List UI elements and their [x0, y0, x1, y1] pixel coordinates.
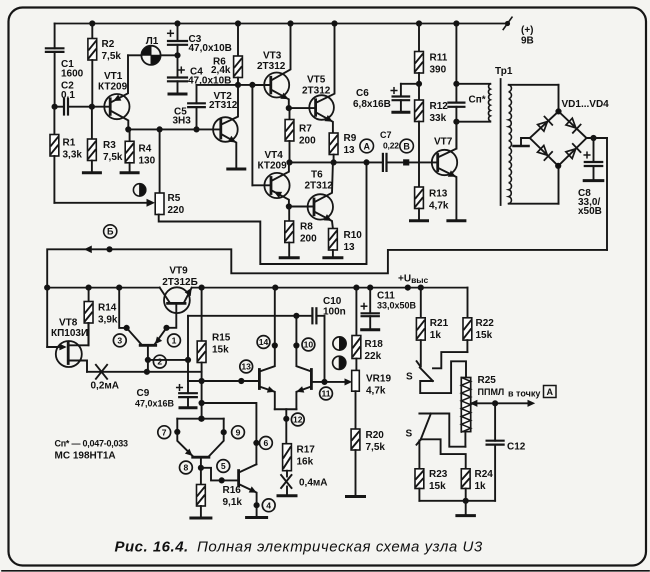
svg-text:13: 13 [241, 362, 251, 372]
svg-text:КП103И: КП103И [51, 328, 88, 339]
wire pin13 base [188, 380, 259, 382]
svg-text:в точку: в точку [508, 389, 540, 399]
svg-text:VD1...VD4: VD1...VD4 [562, 99, 610, 110]
svg-text:7: 7 [162, 427, 167, 437]
svg-text:R9: R9 [344, 133, 357, 144]
svg-text:47,0x16В: 47,0x16В [135, 399, 175, 409]
svg-text:1k: 1k [475, 481, 487, 492]
ground VT2 [228, 168, 245, 171]
svg-text:2,4k: 2,4k [211, 65, 231, 76]
pin 13 [240, 360, 253, 373]
svg-text:R12: R12 [430, 101, 449, 112]
ground R4 [121, 171, 138, 174]
transistor pair C (pins 7-9-8) [177, 418, 223, 420]
svg-text:КТ209: КТ209 [98, 82, 128, 93]
transformer Tp1 primary [456, 83, 490, 85]
wire C10 node [188, 315, 312, 317]
svg-text:6,8x16В: 6,8x16В [353, 99, 391, 110]
svg-text:C7: C7 [380, 130, 392, 140]
svg-text:R25: R25 [478, 375, 497, 386]
diode VD1 [538, 122, 548, 132]
svg-text:R23: R23 [429, 469, 448, 480]
svg-text:4,7k: 4,7k [366, 386, 386, 397]
svg-text:Б: Б [107, 227, 114, 237]
lamp L1 [128, 54, 141, 56]
svg-text:2Т312: 2Т312 [305, 181, 334, 192]
svg-text:R1: R1 [63, 138, 76, 149]
pin 3 [113, 334, 126, 347]
pin 5 [217, 460, 230, 473]
svg-text:S: S [406, 429, 413, 440]
svg-text:12: 12 [293, 415, 303, 425]
svg-text:ППМЛ: ППМЛ [478, 387, 505, 397]
svg-text:33k: 33k [430, 113, 447, 124]
wire VT1 collector node [126, 127, 131, 132]
node B2 arrow [85, 246, 91, 252]
capacitor C8 [591, 135, 596, 140]
capacitor C12 [494, 403, 496, 440]
svg-text:Л1: Л1 [146, 36, 159, 47]
svg-text:2Т312: 2Т312 [209, 100, 238, 111]
ground VT7 [448, 219, 465, 222]
svg-text:Т6: Т6 [311, 170, 323, 181]
wire pin2 link [148, 359, 188, 361]
resistor R17 [283, 444, 292, 471]
diode VD3 [538, 146, 548, 156]
resistor R3 [91, 107, 93, 139]
pin 10 [302, 338, 315, 351]
wire pin5 link [201, 468, 239, 481]
svg-text:100n: 100n [323, 307, 346, 318]
resistor R2 [90, 21, 95, 26]
ground Q4 [247, 516, 267, 519]
resistor R20 [355, 391, 357, 429]
wire to R5 arrow [54, 202, 147, 204]
svg-text:МС 198НТ1А: МС 198НТ1А [55, 451, 116, 462]
svg-text:3Н3: 3Н3 [173, 116, 192, 127]
transistor pair B left (pin 13-14) [258, 370, 261, 389]
wire supply snake [47, 249, 607, 287]
resistor R9 [329, 133, 338, 155]
capacitor C11 [369, 288, 371, 314]
svg-text:Тр1: Тр1 [495, 66, 513, 77]
svg-text:4: 4 [266, 500, 271, 510]
svg-text:15k: 15k [476, 330, 493, 341]
svg-text:VT8: VT8 [59, 318, 78, 329]
node Б [104, 225, 117, 238]
svg-text:C6: C6 [356, 88, 369, 99]
pin 7 [158, 426, 171, 439]
svg-text:200: 200 [299, 136, 316, 147]
svg-text:130: 130 [139, 156, 156, 167]
svg-text:13: 13 [344, 242, 356, 253]
svg-text:0,22: 0,22 [383, 141, 399, 151]
svg-text:R22: R22 [476, 318, 495, 329]
svg-text:Сп* — 0,047-0,033: Сп* — 0,047-0,033 [55, 439, 128, 449]
resistor R14 [88, 288, 90, 302]
svg-text:390: 390 [430, 65, 447, 76]
svg-text:x50В: x50В [578, 206, 602, 217]
svg-text:8: 8 [184, 463, 189, 473]
svg-text:+Uвыс: +Uвыс [398, 274, 429, 286]
svg-text:R13: R13 [429, 189, 448, 200]
svg-text:R3: R3 [103, 140, 116, 151]
svg-text:7,5k: 7,5k [366, 442, 386, 453]
capacitor C4 [177, 55, 179, 77]
svg-text:47,0x10В: 47,0x10В [189, 43, 232, 54]
transistor pair A (pins 3-1-2) [140, 344, 156, 347]
svg-text:Сп*: Сп* [469, 95, 486, 106]
wire base VT3 node [197, 84, 271, 86]
transistor VT7 [432, 150, 457, 175]
svg-text:33,0x50В: 33,0x50В [377, 301, 417, 311]
resistor R4 [129, 129, 131, 141]
wire bridge output [587, 137, 608, 139]
svg-text:3,3k: 3,3k [63, 150, 83, 161]
pin 14 [257, 336, 270, 349]
transistor VT2 2T312 [213, 117, 238, 142]
bottom page rule [2, 570, 649, 572]
svg-text:2Т312: 2Т312 [302, 86, 331, 97]
potentiometer R25 [461, 378, 470, 432]
ground R8 [280, 256, 298, 259]
resistor R11 [416, 21, 421, 26]
svg-text:5: 5 [221, 461, 226, 471]
capacitor C6 [401, 83, 419, 85]
svg-text:A: A [546, 387, 553, 397]
svg-text:15k: 15k [429, 481, 446, 492]
transistor VT5 2T312 [289, 107, 316, 109]
ground bus [457, 514, 475, 517]
ground R10 [324, 256, 342, 259]
capacitor C5 [196, 85, 198, 103]
svg-text:R14: R14 [98, 303, 117, 314]
resistor R12 [418, 84, 420, 100]
transistor VT8 KP103I [46, 288, 48, 347]
svg-text:200: 200 [300, 234, 317, 245]
svg-text:R20: R20 [366, 430, 385, 441]
wire pin11 to VR19 [311, 381, 347, 383]
svg-text:6: 6 [264, 438, 269, 448]
transistor VT9 2T312B [164, 287, 190, 313]
svg-text:VT7: VT7 [434, 137, 453, 148]
wire X 0.2mA [87, 371, 202, 373]
svg-text:КТ209: КТ209 [258, 161, 288, 172]
resistor R21 [420, 288, 422, 318]
wire VT3VT4 base link [251, 85, 253, 185]
svg-text:2: 2 [157, 357, 162, 367]
svg-text:R18: R18 [365, 339, 384, 350]
svg-text:11: 11 [321, 389, 330, 399]
pin 6 [260, 437, 273, 450]
pin 12 [291, 413, 304, 426]
ground C4 [169, 93, 186, 96]
transformer Tp1 secondary [509, 84, 559, 86]
svg-text:R5: R5 [168, 193, 181, 204]
transistor VT4 KT209 [264, 173, 289, 198]
wire top supply rail [55, 23, 508, 25]
svg-text:15k: 15k [212, 345, 229, 356]
svg-text:9,1k: 9,1k [223, 497, 243, 508]
transistor T6 2T312 [289, 206, 314, 208]
wire tank feed [454, 21, 459, 26]
svg-text:4,7k: 4,7k [429, 201, 449, 212]
node B [400, 139, 414, 153]
pin 9 [232, 426, 245, 439]
svg-text:Рис. 16.4.: Рис. 16.4. [115, 539, 189, 556]
svg-text:9: 9 [236, 427, 241, 437]
svg-text:VT3: VT3 [263, 51, 282, 62]
svg-text:0,2мА: 0,2мА [91, 381, 120, 392]
transformer core [500, 79, 502, 205]
svg-text:220: 220 [168, 205, 185, 216]
svg-text:14: 14 [259, 337, 269, 347]
transistor Q4 (pins 5-6-4) [237, 471, 240, 486]
resistor R23 [415, 469, 424, 489]
resistor R24 [461, 469, 470, 489]
trimmer marker [133, 184, 145, 196]
capacitor C1 [54, 24, 56, 49]
svg-text:Полная электрическая схема узл: Полная электрическая схема узла U3 [197, 539, 483, 556]
svg-text:R17: R17 [297, 445, 316, 456]
svg-text:R24: R24 [475, 469, 494, 480]
wire VT1 base node [55, 106, 64, 108]
resistor R8 [288, 207, 290, 222]
capacitor C7 [382, 154, 384, 171]
svg-text:R15: R15 [212, 333, 231, 344]
pin 2 [153, 355, 166, 368]
svg-text:R2: R2 [102, 39, 115, 50]
trimmer VR19 [352, 370, 360, 391]
svg-text:VR19: VR19 [366, 374, 391, 385]
resistor R18 [355, 288, 357, 336]
ground R13 [411, 219, 428, 222]
adjust markers [333, 337, 346, 350]
svg-text:1k: 1k [430, 330, 442, 341]
svg-text:C12: C12 [507, 442, 526, 453]
diode VD4 [566, 149, 576, 159]
pin 8 [180, 461, 193, 474]
wiper to point A [471, 401, 477, 407]
capacitor C9 [187, 316, 189, 393]
trimmer R5 [159, 129, 161, 193]
svg-text:R11: R11 [430, 53, 448, 64]
node A [360, 139, 374, 153]
svg-text:3: 3 [117, 336, 122, 346]
svg-text:22k: 22k [365, 351, 382, 362]
wire common emitters [275, 408, 297, 410]
capacitor Cn [448, 101, 464, 103]
resistor R13 [418, 162, 420, 187]
svg-text:A: A [363, 141, 370, 151]
capacitor C3 [175, 21, 180, 26]
svg-text:R8: R8 [300, 222, 313, 233]
pin 1 [168, 334, 181, 347]
pin 11 [320, 387, 333, 400]
resistor R1 [53, 107, 55, 135]
svg-text:7,5k: 7,5k [103, 152, 123, 163]
transistor VT3 2T312 [264, 73, 289, 98]
svg-text:2Т312: 2Т312 [257, 61, 286, 72]
diode VD2 [566, 118, 576, 128]
svg-text:VT9: VT9 [169, 266, 188, 277]
capacitor C10 [311, 308, 313, 323]
svg-text:VT1: VT1 [104, 71, 123, 82]
svg-text:C9: C9 [137, 388, 150, 399]
svg-text:3,9k: 3,9k [98, 315, 118, 326]
svg-text:R7: R7 [299, 124, 312, 135]
svg-text:16k: 16k [297, 457, 314, 468]
transistor VT1 KT209 [104, 94, 129, 119]
resistor R15 [201, 288, 203, 341]
svg-text:1600: 1600 [61, 69, 84, 80]
resistor R10 [329, 229, 338, 251]
svg-text:S: S [406, 372, 413, 383]
wire bottom ground bus [419, 500, 495, 502]
ground bridge [521, 138, 530, 145]
svg-text:VT4: VT4 [265, 150, 284, 161]
svg-text:9В: 9В [521, 36, 534, 47]
resistor R22 [463, 318, 472, 340]
svg-text:R4: R4 [139, 144, 152, 155]
svg-text:7,5k: 7,5k [102, 51, 122, 62]
wire bottom rail [47, 287, 160, 289]
terminal (+)9V [505, 21, 509, 25]
svg-text:1: 1 [172, 336, 177, 346]
svg-text:C10: C10 [323, 296, 342, 307]
svg-text:(+): (+) [521, 25, 534, 36]
resistor R7 [289, 108, 291, 119]
svg-text:10: 10 [304, 340, 314, 350]
pin 4 [262, 499, 275, 512]
svg-text:0,4мА: 0,4мА [299, 478, 328, 489]
svg-text:2Т312Б: 2Т312Б [162, 277, 198, 288]
svg-text:R10: R10 [344, 230, 363, 241]
svg-text:B: B [403, 141, 410, 151]
svg-text:13: 13 [344, 145, 356, 156]
wire Q4 collector [202, 403, 257, 464]
wire AB line [289, 161, 383, 163]
svg-text:R21: R21 [430, 318, 449, 329]
transistor pair B right (pin 10-11) [310, 370, 313, 389]
ground R3 [83, 171, 100, 174]
svg-text:VT5: VT5 [307, 75, 326, 86]
wire R5 feedback to node A [159, 162, 367, 264]
resistor R16 [197, 485, 206, 507]
